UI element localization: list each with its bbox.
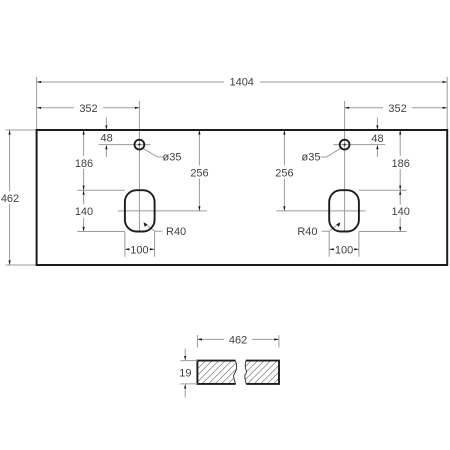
svg-text:352: 352 xyxy=(388,103,406,115)
leader diameter 35 left xyxy=(143,148,163,157)
label 140 left xyxy=(74,205,94,218)
countertop outline (top view) xyxy=(37,130,448,265)
label 256 right xyxy=(275,166,295,179)
arrows 100 left xyxy=(125,248,130,250)
dimension 186 right line xyxy=(399,130,401,190)
wire extension line left basin bottom xyxy=(77,231,125,233)
label 352 left xyxy=(74,101,103,114)
svg-text:140: 140 xyxy=(75,206,93,218)
dimension 186 left line xyxy=(83,130,85,190)
label 140 right xyxy=(391,205,411,218)
arrows 186 right xyxy=(399,130,401,135)
dimension 256 left line xyxy=(198,130,200,211)
node centerline horizontal left faucet hole xyxy=(99,144,151,146)
dimension 1404 line xyxy=(37,81,448,83)
wire extension line right edge top xyxy=(446,77,448,129)
arrow 352 left a xyxy=(37,107,42,109)
label 100 left xyxy=(130,244,150,256)
svg-text:462: 462 xyxy=(229,335,247,347)
svg-text:352: 352 xyxy=(79,103,97,115)
arrow 1404 left xyxy=(37,81,42,83)
node centerline horizontal right faucet hole xyxy=(333,144,385,146)
section break edge left xyxy=(234,361,237,384)
label 352 right xyxy=(383,101,412,114)
faucet hole left (diameter 35) xyxy=(135,140,145,150)
node centerline vertical left hole xyxy=(138,101,140,232)
svg-text:48: 48 xyxy=(100,133,112,145)
svg-text:1404: 1404 xyxy=(229,77,253,89)
arrow R40 left leader xyxy=(144,222,148,227)
wire extension line right basin bottom xyxy=(359,231,407,233)
leader R40 right xyxy=(322,224,340,232)
arrowheads xyxy=(9,81,448,265)
svg-text:256: 256 xyxy=(190,167,208,179)
arrows 256 right xyxy=(283,130,285,135)
wire extension lines 100 left xyxy=(124,232,126,257)
section break edge right xyxy=(245,361,247,384)
arrows 186 left xyxy=(83,130,85,135)
section outline left piece xyxy=(197,361,235,384)
svg-text:48: 48 xyxy=(371,133,383,145)
label 186 left xyxy=(74,156,94,169)
label 256 left xyxy=(190,166,210,179)
wire extension lines 19 xyxy=(181,360,198,362)
basin cutout right (R40) xyxy=(329,190,359,231)
wire tick 462 section left xyxy=(196,335,198,348)
wire extension line top-left for 462 xyxy=(6,129,36,131)
svg-text:100: 100 xyxy=(130,244,148,256)
arrows 48 left xyxy=(105,125,107,130)
dimension 462 left line xyxy=(9,130,11,265)
arrow 462 top xyxy=(9,130,11,135)
arrows 19 xyxy=(184,356,186,361)
dimension 140 right line xyxy=(399,190,401,231)
dimension 48 left lines xyxy=(105,118,107,127)
wire extension line bottom-left for 462 xyxy=(6,264,36,266)
svg-text:R40: R40 xyxy=(166,226,186,238)
svg-text:256: 256 xyxy=(275,167,293,179)
dimension 462 section line xyxy=(197,338,279,340)
svg-text:100: 100 xyxy=(335,244,353,256)
dimension 100 right line xyxy=(329,248,359,250)
arrow 352 left b xyxy=(135,107,140,109)
label 462 section xyxy=(224,333,252,346)
arrow R40 right leader xyxy=(336,222,340,227)
svg-text:ø35: ø35 xyxy=(163,152,182,164)
node centerline vertical right hole xyxy=(344,101,346,232)
arrows 100 right xyxy=(329,248,334,250)
svg-text:186: 186 xyxy=(392,158,410,170)
text labels with white backing xyxy=(0,75,412,256)
svg-text:140: 140 xyxy=(392,206,410,218)
section outline right piece xyxy=(246,361,279,384)
dimension 100 left line xyxy=(125,248,155,250)
basin cutout left (R40) xyxy=(125,190,155,231)
svg-text:ø35: ø35 xyxy=(302,152,321,164)
arrows 140 right xyxy=(399,190,401,195)
svg-text:19: 19 xyxy=(179,368,191,380)
dimension 352 left line xyxy=(37,107,140,109)
wire tick 462 section right xyxy=(278,335,280,348)
arrows 140 left xyxy=(83,190,85,195)
section hatch fill right piece xyxy=(245,361,279,384)
label 1404 xyxy=(224,75,260,88)
wire extension line left basin top xyxy=(77,189,125,191)
arrows 256 left xyxy=(198,130,200,135)
wire extension lines 100 right xyxy=(328,232,330,257)
arrows 48 right xyxy=(376,125,378,130)
arrow 352 right b xyxy=(443,107,448,109)
label 462 left xyxy=(0,191,21,204)
dimension 140 left line xyxy=(83,190,85,231)
section view xyxy=(179,333,279,398)
arrow 1404 right xyxy=(443,81,448,83)
dimension 19 lines xyxy=(184,349,186,357)
arrows 462 section xyxy=(184,338,279,388)
dimension 48 right lines xyxy=(376,118,378,127)
dimension 352 right line xyxy=(345,107,448,109)
node centerline horizontal left basin cutout xyxy=(118,210,207,212)
faucet hole right (diameter 35) xyxy=(340,140,350,150)
leader diameter 35 right xyxy=(321,148,341,157)
label 100 right xyxy=(334,244,354,256)
leader R40 left xyxy=(145,224,163,232)
section hatch fill left piece xyxy=(197,361,236,384)
label 186 right xyxy=(391,156,411,169)
arrow 462 bottom xyxy=(9,260,11,265)
wire extension line left edge top xyxy=(36,77,38,129)
wire extension line right basin top xyxy=(359,189,407,191)
arrow 352 right a xyxy=(345,107,350,109)
dimension 256 right line xyxy=(283,130,285,211)
node centerline horizontal right basin cutout xyxy=(276,210,365,212)
svg-text:462: 462 xyxy=(1,193,19,205)
svg-text:R40: R40 xyxy=(297,226,317,238)
svg-text:186: 186 xyxy=(75,158,93,170)
